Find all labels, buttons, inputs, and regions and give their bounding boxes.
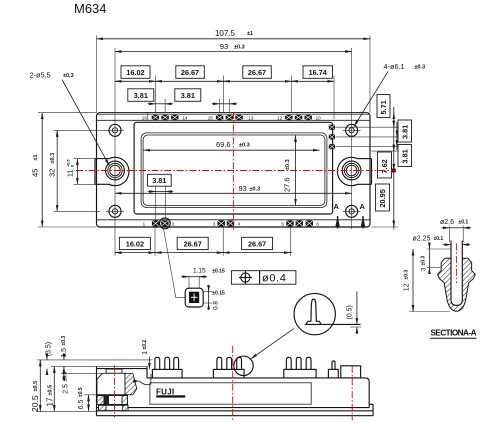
svg-text:A: A: [360, 202, 366, 211]
svg-text:±0.3: ±0.3: [250, 187, 261, 193]
svg-text:SECTIONA-A: SECTIONA-A: [431, 329, 477, 338]
svg-text:10: 10: [316, 115, 322, 120]
svg-text:(0.5): (0.5): [347, 305, 354, 319]
svg-text:±0.1: ±0.1: [459, 219, 469, 225]
svg-text:ø2.25: ø2.25: [413, 235, 431, 242]
svg-text:3.81: 3.81: [181, 91, 195, 100]
svg-text:7.62: 7.62: [380, 159, 389, 173]
svg-text:M634: M634: [74, 1, 107, 16]
svg-text:3.81: 3.81: [134, 91, 148, 100]
svg-text:±0.3: ±0.3: [63, 372, 69, 382]
svg-text:20.5: 20.5: [30, 395, 40, 412]
svg-text:20.95: 20.95: [378, 189, 387, 207]
svg-text:1.5: 1.5: [61, 348, 68, 358]
svg-text:26.67: 26.67: [248, 68, 266, 77]
svg-text:0.8: 0.8: [213, 301, 220, 310]
svg-text:±1: ±1: [247, 31, 253, 37]
svg-text:16.02: 16.02: [126, 68, 144, 77]
svg-text:±0.3: ±0.3: [63, 73, 74, 79]
svg-text:13: 13: [248, 115, 254, 120]
svg-text:17: 17: [46, 397, 55, 406]
svg-text:26.67: 26.67: [184, 240, 202, 249]
svg-text:1.15: 1.15: [193, 268, 206, 275]
svg-text:12: 12: [404, 283, 411, 291]
svg-text:11: 11: [68, 170, 75, 177]
svg-text:±0.5: ±0.5: [48, 385, 54, 396]
svg-text:14: 14: [183, 115, 189, 120]
svg-text:45: 45: [31, 169, 40, 177]
svg-text:16.02: 16.02: [126, 240, 144, 249]
svg-text:26.67: 26.67: [181, 68, 199, 77]
svg-text:3: 3: [420, 267, 427, 271]
svg-text:±0.5: ±0.5: [78, 387, 84, 397]
svg-text:(3.5): (3.5): [46, 342, 53, 356]
svg-text:15: 15: [208, 115, 214, 120]
svg-text:3: 3: [213, 221, 216, 226]
svg-text:±0.2: ±0.2: [142, 340, 148, 350]
svg-text:±0.15: ±0.15: [212, 291, 225, 297]
svg-text:2: 2: [172, 221, 175, 226]
svg-text:±0.3: ±0.3: [420, 256, 426, 266]
svg-text:4: 4: [238, 221, 241, 226]
svg-text:26.67: 26.67: [248, 240, 266, 249]
svg-text:16: 16: [142, 115, 148, 120]
svg-text:2-ø5.5: 2-ø5.5: [30, 71, 51, 80]
svg-text:±0.3: ±0.3: [415, 65, 426, 71]
svg-text:3.81: 3.81: [400, 125, 409, 139]
svg-text:12: 12: [277, 115, 283, 120]
svg-text:93: 93: [239, 184, 247, 193]
svg-text:107.5: 107.5: [215, 29, 236, 38]
svg-text:69.6: 69.6: [216, 140, 231, 149]
svg-text:2.5: 2.5: [63, 384, 70, 394]
svg-text:3.81: 3.81: [152, 176, 166, 185]
svg-text:5.71: 5.71: [379, 100, 388, 114]
svg-text:1: 1: [142, 351, 149, 355]
svg-text:6: 6: [316, 221, 319, 226]
svg-text:±0.3: ±0.3: [234, 45, 245, 51]
svg-text:±0.5: ±0.5: [33, 381, 39, 392]
svg-text:6.5: 6.5: [78, 399, 85, 409]
svg-text:A: A: [334, 202, 340, 211]
svg-text:5: 5: [281, 221, 284, 226]
svg-text:±0.15: ±0.15: [212, 269, 225, 275]
svg-text:0: 0: [71, 165, 75, 167]
svg-text:±0.3: ±0.3: [61, 336, 67, 346]
svg-text:±0.3: ±0.3: [50, 153, 56, 164]
svg-text:ø2.6: ø2.6: [440, 219, 454, 226]
svg-text:32: 32: [48, 169, 57, 177]
svg-text:3.81: 3.81: [400, 149, 409, 163]
svg-text:±0.3: ±0.3: [404, 270, 410, 280]
svg-text:±0.1: ±0.1: [434, 236, 444, 242]
svg-text:1: 1: [143, 221, 146, 226]
svg-text:27.6: 27.6: [283, 177, 292, 192]
svg-text:16.74: 16.74: [309, 68, 328, 77]
svg-text:ø0.4: ø0.4: [262, 273, 286, 285]
svg-text:±0.3: ±0.3: [239, 143, 250, 149]
svg-text:FUJI: FUJI: [156, 387, 175, 396]
svg-text:4-ø6.1: 4-ø6.1: [384, 62, 405, 71]
svg-text:93: 93: [220, 42, 228, 51]
svg-text:±0.3: ±0.3: [285, 159, 291, 170]
svg-text:±1: ±1: [33, 154, 39, 160]
